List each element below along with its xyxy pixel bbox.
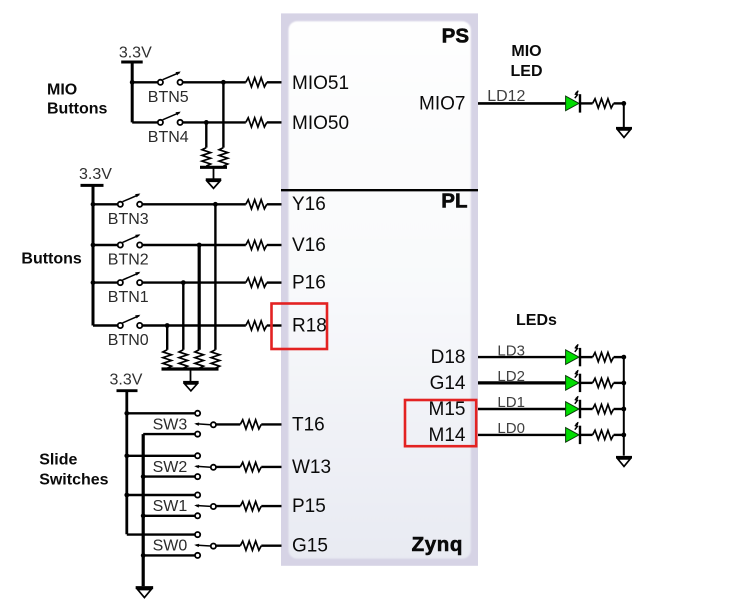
svg-text:M15: M15 bbox=[429, 399, 466, 420]
svg-text:SW2: SW2 bbox=[153, 459, 188, 476]
svg-text:BTN1: BTN1 bbox=[108, 289, 149, 306]
svg-text:Buttons: Buttons bbox=[21, 251, 82, 268]
svg-text:BTN4: BTN4 bbox=[148, 129, 189, 146]
svg-text:3.3V: 3.3V bbox=[79, 166, 112, 183]
svg-text:BTN2: BTN2 bbox=[108, 252, 149, 269]
svg-text:SW3: SW3 bbox=[153, 416, 188, 433]
svg-text:BTN3: BTN3 bbox=[108, 211, 149, 228]
svg-text:MIO: MIO bbox=[511, 43, 541, 60]
svg-text:MIO50: MIO50 bbox=[292, 113, 349, 134]
svg-text:R18: R18 bbox=[292, 315, 327, 336]
svg-text:Buttons: Buttons bbox=[47, 101, 108, 118]
svg-text:Y16: Y16 bbox=[292, 194, 326, 215]
svg-text:Slide: Slide bbox=[39, 452, 77, 469]
svg-text:BTN0: BTN0 bbox=[108, 332, 149, 349]
svg-text:G14: G14 bbox=[430, 373, 466, 394]
svg-text:P15: P15 bbox=[292, 496, 326, 517]
svg-text:PS: PS bbox=[442, 25, 469, 48]
svg-text:MIO51: MIO51 bbox=[292, 73, 349, 94]
svg-text:BTN5: BTN5 bbox=[148, 89, 189, 106]
svg-text:Zynq: Zynq bbox=[412, 533, 463, 556]
svg-text:Switches: Switches bbox=[39, 472, 108, 489]
svg-text:G15: G15 bbox=[292, 536, 328, 557]
svg-text:SW0: SW0 bbox=[153, 538, 188, 555]
svg-text:MIO: MIO bbox=[47, 82, 77, 99]
svg-text:MIO7: MIO7 bbox=[419, 93, 465, 114]
svg-text:LEDs: LEDs bbox=[516, 312, 557, 329]
svg-text:3.3V: 3.3V bbox=[110, 372, 143, 389]
svg-text:D18: D18 bbox=[431, 347, 466, 368]
svg-text:3.3V: 3.3V bbox=[119, 45, 152, 62]
svg-text:P16: P16 bbox=[292, 273, 326, 294]
svg-text:T16: T16 bbox=[292, 414, 325, 435]
svg-text:PL: PL bbox=[441, 189, 467, 212]
svg-text:W13: W13 bbox=[292, 457, 331, 478]
svg-text:V16: V16 bbox=[292, 235, 326, 256]
svg-text:LED: LED bbox=[511, 63, 543, 80]
svg-text:SW1: SW1 bbox=[153, 498, 188, 515]
svg-text:M14: M14 bbox=[429, 425, 466, 446]
